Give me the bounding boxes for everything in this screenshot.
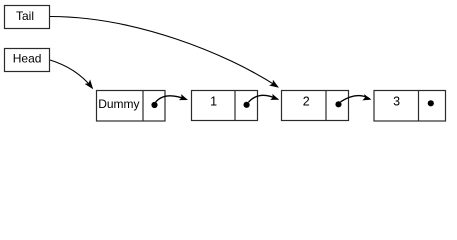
svg-text:Tail: Tail <box>16 9 34 23</box>
svg-text:1: 1 <box>210 95 217 109</box>
svg-text:3: 3 <box>393 95 400 109</box>
svg-text:Dummy: Dummy <box>98 97 139 111</box>
svg-text:2: 2 <box>303 95 310 109</box>
svg-text:Head: Head <box>13 51 42 65</box>
